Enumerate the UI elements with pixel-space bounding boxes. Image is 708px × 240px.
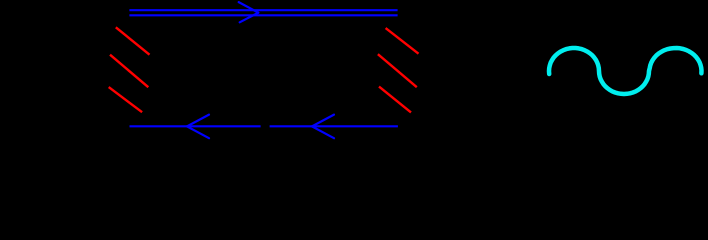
right red hatch line 1 — [386, 28, 419, 54]
bottom fermion line, left segment (blue) — [130, 125, 261, 127]
bottom fermion line, right segment (blue) — [270, 125, 398, 127]
photon wavy line (cyan) — [549, 48, 702, 94]
left red hatch line 2 — [110, 55, 148, 87]
right red hatch line 3 — [379, 87, 411, 113]
double-line propagator (top, blue) — [129, 10, 397, 15]
right red hatch line 2 — [378, 54, 417, 87]
left red hatch line 3 — [109, 87, 142, 112]
arrow on double line (points right) — [239, 2, 259, 22]
right arrow on bottom line (points left) — [312, 115, 334, 139]
left arrow on bottom line (points left) — [187, 115, 209, 139]
left red hatch line 1 — [116, 27, 150, 54]
